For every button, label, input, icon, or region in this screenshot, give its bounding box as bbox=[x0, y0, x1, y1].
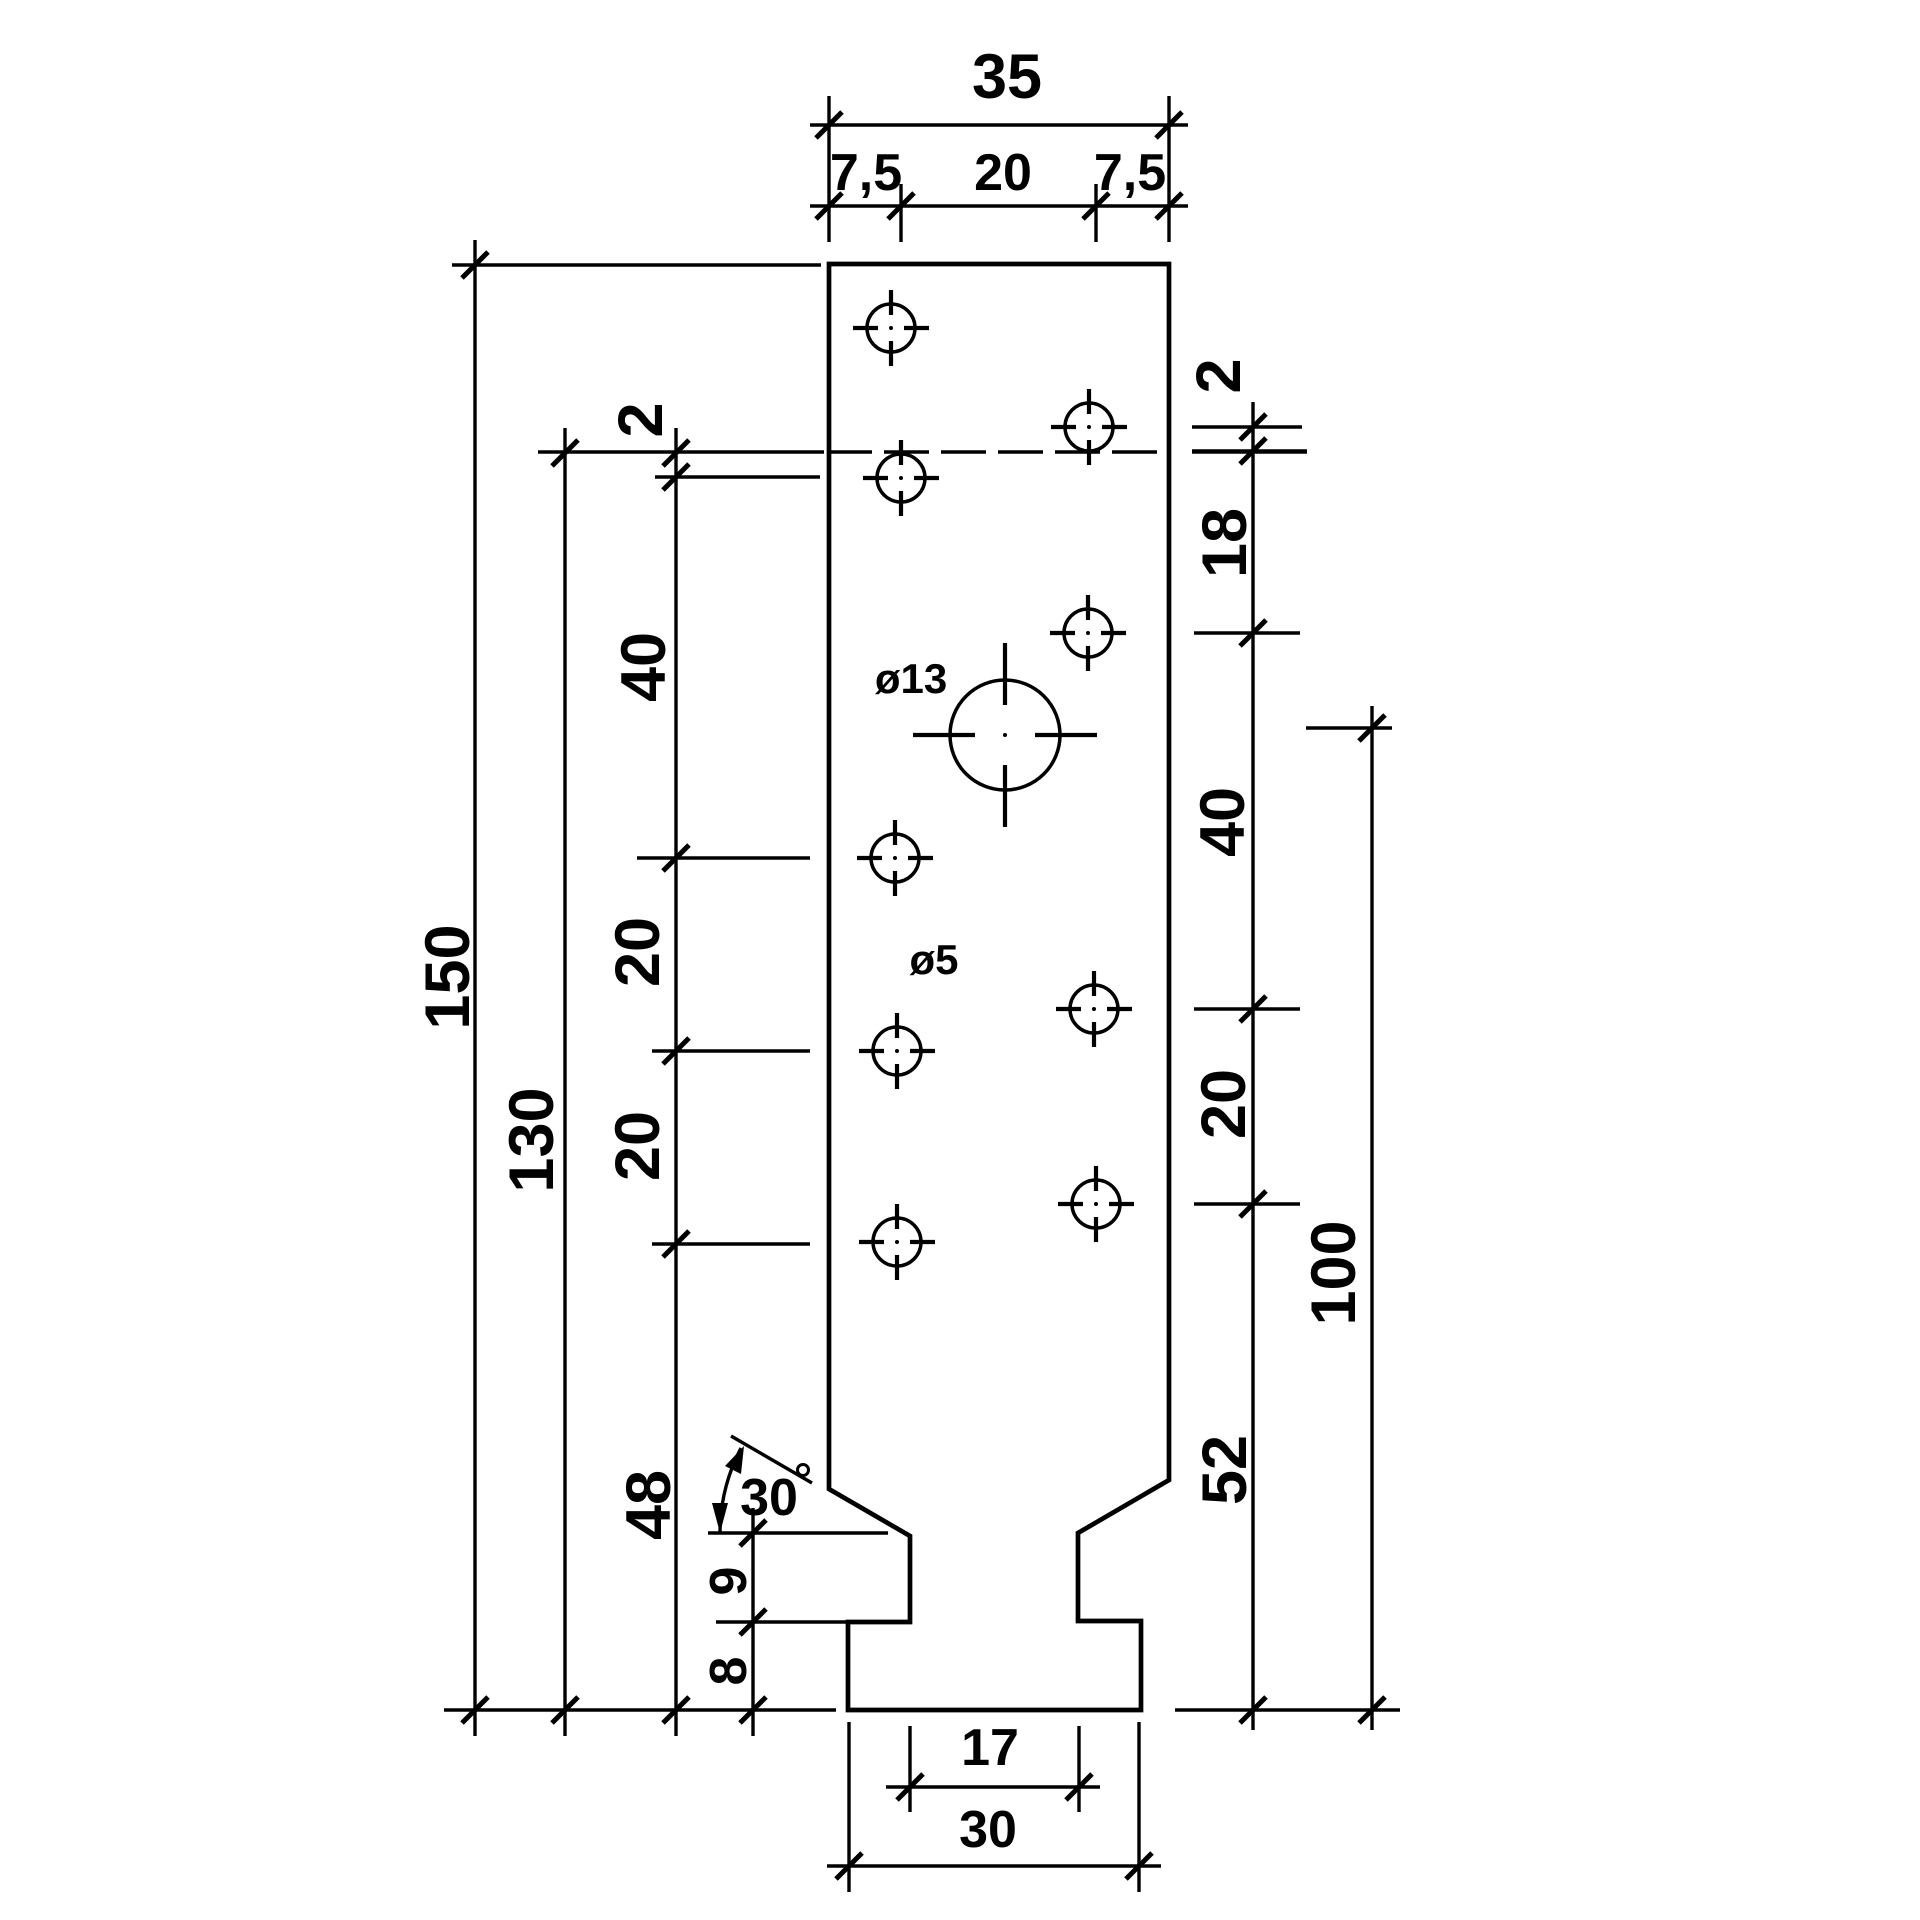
angle arc arrowhead top bbox=[725, 1446, 744, 1474]
ext line hole col left (7,5) bbox=[899, 184, 902, 242]
TICKS bbox=[462, 112, 1385, 1879]
tick 7,5 d bbox=[1156, 193, 1182, 219]
tick right 40 bbox=[1240, 996, 1266, 1022]
svg-text:2: 2 bbox=[606, 402, 676, 437]
DIMENSIONS bbox=[444, 96, 1400, 1892]
svg-text:7,5: 7,5 bbox=[830, 144, 902, 202]
angle arc arrowhead bottom bbox=[712, 1503, 728, 1533]
tick 9 bottom bbox=[740, 1609, 766, 1635]
tick 20 right bbox=[1083, 193, 1109, 219]
ext line neck right (17 dim) bbox=[1077, 1726, 1080, 1812]
tick right 20 bbox=[1240, 1191, 1266, 1217]
ext line hole B3 row (40/20) bbox=[1194, 1007, 1300, 1010]
hole B1 (ø5) bbox=[1051, 389, 1127, 465]
ext line hole A5 row bbox=[652, 1242, 810, 1245]
svg-text:30: 30 bbox=[959, 1801, 1017, 1859]
ext line hole B1 row (2 dim right) bbox=[1192, 425, 1302, 428]
tick 17 left bbox=[897, 1774, 923, 1800]
tick 30 left bbox=[836, 1853, 862, 1879]
tick 8 bottom bbox=[740, 1697, 766, 1723]
svg-text:9: 9 bbox=[700, 1567, 758, 1596]
ext line hole A2 row (2 dim) bbox=[655, 475, 820, 478]
left chain dim line (2/40/20/20/48) bbox=[674, 428, 677, 1736]
ext line neck left (17 dim) bbox=[908, 1726, 911, 1812]
ext line hole A4 row bbox=[652, 1049, 810, 1052]
svg-text:8: 8 bbox=[700, 1657, 758, 1686]
ext line top-left vertical (35 dim) bbox=[827, 96, 830, 242]
svg-text:2: 2 bbox=[1184, 358, 1254, 393]
tick right 2 top bbox=[1240, 414, 1266, 440]
ext line foot right (30 dim) bbox=[1137, 1722, 1140, 1892]
svg-text:48: 48 bbox=[614, 1470, 684, 1540]
dim line 130 bbox=[563, 428, 566, 1736]
dim line 100 bbox=[1370, 706, 1373, 1730]
svg-text:20: 20 bbox=[1189, 1069, 1259, 1139]
tick chain 20a bbox=[663, 1038, 689, 1064]
tick chain 2 bottom bbox=[663, 464, 689, 490]
plate outline bbox=[829, 264, 1169, 1710]
tick chain 2 top bbox=[663, 440, 689, 466]
hole A3 (ø5) bbox=[857, 820, 933, 896]
hole B3 (ø5) bbox=[1056, 971, 1132, 1047]
degree symbol bbox=[798, 1465, 809, 1476]
dim line 17 bbox=[886, 1785, 1100, 1788]
baseline bottom-left bbox=[444, 1708, 836, 1711]
tick right 2 bottom bbox=[1240, 438, 1266, 464]
tick 17 right bbox=[1066, 1774, 1092, 1800]
right chain dim line (2/18/40/20/52) bbox=[1251, 402, 1254, 1730]
ext line hole A3 row bbox=[637, 856, 810, 859]
hole B2 (ø5) bbox=[1050, 595, 1126, 671]
ext line centerline right (2 dim right) bbox=[1192, 449, 1307, 452]
tick 35 right bbox=[1156, 112, 1182, 138]
angle reference line 30deg bbox=[731, 1436, 812, 1483]
tick 100 bottom bbox=[1359, 1697, 1385, 1723]
HOLES bbox=[853, 290, 1134, 1280]
ext line plate top (150 dim) bbox=[452, 263, 821, 266]
centerline solid right bbox=[1192, 450, 1307, 453]
tick 130 top bbox=[552, 440, 578, 466]
dim line 9/8 bbox=[751, 1508, 754, 1736]
tick chain 40 bbox=[663, 845, 689, 871]
hole B4 (ø5) bbox=[1058, 1166, 1134, 1242]
dim line 35 bbox=[810, 123, 1188, 126]
svg-text:ø5: ø5 bbox=[909, 936, 958, 983]
svg-text:20: 20 bbox=[974, 144, 1032, 202]
angle arc 30deg bbox=[720, 1448, 741, 1533]
tick 100 top bbox=[1359, 715, 1385, 741]
hole A2 (ø5) bbox=[863, 440, 939, 516]
svg-text:150: 150 bbox=[413, 924, 483, 1029]
ext line step (8 dim) bbox=[716, 1620, 846, 1623]
baseline bottom-right bbox=[1175, 1708, 1400, 1711]
svg-text:7,5: 7,5 bbox=[1094, 144, 1166, 202]
tick 150 bottom bbox=[462, 1697, 488, 1723]
hole A1 (ø5) bbox=[853, 290, 929, 366]
tick 35 left bbox=[816, 112, 842, 138]
ext line hole col right (7,5) bbox=[1094, 184, 1097, 242]
svg-text:40: 40 bbox=[1188, 787, 1258, 857]
hole A5 (ø5) bbox=[859, 1204, 935, 1280]
ext line top-right vertical (35 dim) bbox=[1167, 96, 1170, 242]
centerline solid left bbox=[538, 450, 824, 453]
svg-text:130: 130 bbox=[497, 1087, 567, 1192]
hole A4 (ø5) bbox=[859, 1013, 935, 1089]
tick 7,5 a bbox=[816, 193, 842, 219]
svg-text:30: 30 bbox=[740, 1469, 798, 1527]
tick chain 20b bbox=[663, 1231, 689, 1257]
tick 7,5 b bbox=[888, 193, 914, 219]
svg-text:ø13: ø13 bbox=[875, 655, 947, 702]
svg-text:100: 100 bbox=[1299, 1220, 1369, 1325]
svg-text:20: 20 bbox=[603, 1111, 673, 1181]
tick 30 right bbox=[1126, 1853, 1152, 1879]
svg-text:35: 35 bbox=[972, 42, 1042, 112]
dim line 30 bbox=[827, 1864, 1161, 1867]
tick 9 top bbox=[740, 1520, 766, 1546]
ext line chamfer bottom (9 dim) bbox=[708, 1531, 888, 1534]
tick chain 48 bottom bbox=[663, 1697, 689, 1723]
svg-text:18: 18 bbox=[1190, 508, 1260, 578]
svg-text:20: 20 bbox=[603, 917, 673, 987]
dim line 7,5 / 20 / 7,5 bbox=[810, 204, 1188, 207]
dim line 150 bbox=[473, 240, 476, 1736]
svg-text:52: 52 bbox=[1190, 1435, 1260, 1505]
ext line foot left (30 dim) bbox=[847, 1722, 850, 1892]
svg-text:40: 40 bbox=[609, 632, 679, 702]
tick right 52 bottom bbox=[1240, 1697, 1266, 1723]
centerline dashed through plate bbox=[827, 450, 1171, 453]
tick right 18 bbox=[1240, 620, 1266, 646]
tick 130 bottom bbox=[552, 1697, 578, 1723]
ext line hole B2 row (18/40) bbox=[1194, 631, 1300, 634]
big hole ø13 bbox=[913, 643, 1097, 827]
ext line big hole center (100 dim) bbox=[1306, 726, 1392, 729]
svg-text:17: 17 bbox=[961, 1719, 1019, 1777]
ext line hole B4 row (20/52) bbox=[1194, 1202, 1300, 1205]
tick 150 top bbox=[462, 252, 488, 278]
